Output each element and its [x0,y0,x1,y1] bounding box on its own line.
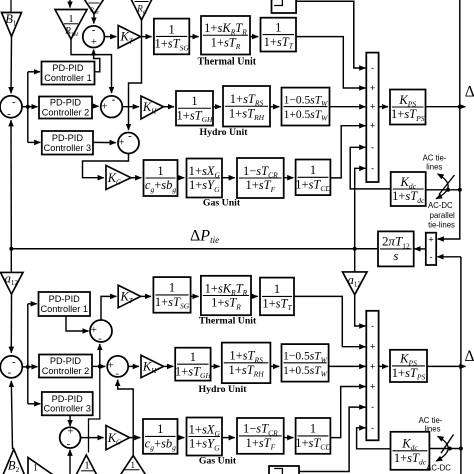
svg-text:cg+sbg: cg+sbg [145,178,177,194]
block DC tie K_dc/(1+sT_dc) area 1 [391,172,426,206]
wire S5 output to controller riser area 2 [22,366,28,368]
wire into PD-PID Controller 1 [28,71,40,73]
svg-text:Controller 1: Controller 1 [41,304,89,314]
svg-text:PD-PID: PD-PID [52,63,84,73]
block DC tie K_dc/(1+sT_dc) area 2 [391,432,430,470]
gain 1/R_G droop area 1 (cut at top) [130,0,154,20]
gain a12 right [343,272,368,295]
block power system K_PS/(1+sT_PS) area 1 [390,90,426,125]
wire reheat to turbine block area 1 [250,36,258,38]
svg-text:1: 1 [33,464,38,474]
gain B1 (frequency bias area 1) [2,12,22,37]
summing junction S6 thermal area 2 [90,320,112,345]
svg-text:1: 1 [310,422,316,436]
block PD-PID Controller 2 area 2 [39,355,92,378]
svg-text:Controller 1: Controller 1 [44,73,92,83]
wire summing block to power system block area 1 [379,106,388,108]
wire to gas combustor block [222,177,235,179]
svg-text:-: - [371,142,374,152]
svg-text:-: - [371,402,374,412]
svg-text:Gas Unit: Gas Unit [203,198,241,209]
svg-text:AC tie-: AC tie- [423,154,447,163]
wire S4 down-left to gain K_G [83,154,129,178]
wire delta f1 output [426,106,466,108]
wire hydro output to summing block input 3 [330,106,366,108]
wire droop riser area 2 [89,366,100,452]
block PD-PID Controller 1 area 1 [42,62,95,85]
summing block area 1 [366,53,378,182]
wire S1 output to controller riser [22,106,28,108]
gain K_T area 2 [118,285,140,308]
node switch area 2 b [459,447,463,451]
wire K_G to gas valve area 2 [130,437,141,439]
svg-text:PD-PID: PD-PID [50,356,82,366]
block PD-PID Controller 3 area 1 [42,131,93,155]
svg-text:Controller 2: Controller 2 [42,366,90,376]
block reheat (1+sK_RT_R)/(1+sT_R) area 1 [201,16,250,55]
svg-text:1: 1 [274,282,280,296]
block hydro governor area 2 [175,348,212,381]
svg-text:+: + [118,137,124,149]
block speed governor 1/(1+sT_SG) area 1 [154,19,189,55]
wire K_dc area 2 to summing block input 6 [357,428,391,449]
svg-text:-: - [430,252,433,262]
wire K_dc to feedback node area 1 [426,189,460,191]
block gas governor (1+sX_G)/(1+sY_G) [187,159,223,198]
svg-text:+: + [370,121,375,131]
svg-text:1: 1 [168,22,174,36]
node switch area 1 b [458,188,462,192]
svg-text:cg+sbg: cg+sbg [145,437,177,453]
block turbine 1/(1+sT_T) area 1 [261,18,297,52]
wire delta P tie line [11,248,378,250]
block turbine area 2 [260,278,294,316]
svg-text:-: - [8,367,12,379]
svg-text:-: - [12,96,16,108]
wire to hydro penstock block [270,106,279,108]
gain 1/R_TH droop area 2 (cut at bottom) [72,455,102,474]
svg-text:1+sKRTR: 1+sKRTR [205,281,248,297]
block power system K_PS/(1+sT_PS) area 2 [390,350,427,382]
wire S6 output to gain K_T area 2 [101,296,116,320]
svg-text:-: - [371,63,374,73]
block tie-line 2piT12/s [378,231,414,266]
gain K_H area 2 [141,355,164,378]
gain 1/R_TH droop area 1 [55,10,87,40]
wire B2 up into summing S5 [11,381,12,449]
svg-text:Δf2: Δf2 [465,348,474,366]
svg-text:-: - [371,163,374,173]
svg-text:-: - [67,438,71,450]
summing block area 2 [366,311,378,441]
block penstock (1-0.5sT_W)/(1+0.5sT_W) [282,88,330,126]
wire delta f2 feedback into tie summing (-) [437,256,461,258]
node switch area 2 a [448,447,452,451]
summing junction S1 (ACE area 1) [0,96,22,120]
wire into B1 from top [10,0,12,13]
wire to hydro droop compensation [213,106,221,108]
svg-text:+: + [370,102,375,112]
wire gas output to summing block input 4 [330,126,365,178]
svg-text:-: - [92,24,96,36]
svg-text:PD-PID: PD-PID [50,98,82,108]
svg-text:-: - [371,321,374,331]
wire into PD-PID Controller 2 area 2 [28,366,38,368]
wire to gas compressor block [284,177,294,179]
svg-text:1: 1 [191,94,197,108]
wire controller 1 output into thermal summing S6 [66,316,89,331]
wire controller 3 output down into gas summing S8 [69,415,71,426]
block speed governor area 2 [153,277,190,313]
wire controller 2 output into hydro summing S3 [92,105,99,107]
svg-text:s: s [393,248,398,263]
svg-text:1: 1 [84,460,89,471]
summing junction S7 hydro area 2 [107,356,128,380]
wire into PD-PID Controller 2 [28,106,38,108]
svg-text:Hydro Unit: Hydro Unit [200,127,249,138]
wire K_H to hydro governor area 2 [164,365,174,367]
svg-text:-: - [98,333,102,345]
wire frequency feedback up into S8 bottom [69,450,71,474]
svg-text:PD-PID: PD-PID [52,133,84,143]
svg-text:1: 1 [68,14,73,25]
svg-text:+: + [370,382,375,392]
wire frequency feedback into 1/R_TH [69,0,71,8]
wire a12 right to summing block area 2 input 1 [355,295,366,326]
node controller 2 branch area 2 [98,364,102,368]
block gas governor area 2 [187,418,223,456]
svg-text:Thermal Unit: Thermal Unit [197,56,256,67]
wire controller 3 output into gas summing S4 [93,141,116,143]
block compressor area 2 [295,418,331,454]
wire summing block to power system area 2 [379,365,388,367]
svg-text:1: 1 [275,20,281,34]
wire turbine output to summing block area 2 input 2 [294,296,365,346]
svg-text:PD-PID: PD-PID [49,294,81,304]
svg-text:+: + [108,360,114,372]
node delta f1 feedback [458,105,462,109]
node tie-line a12 branch [353,247,357,251]
switch blade area 2 [441,435,454,454]
wire 1/R_TH to droop bus and hydro summing S3 [71,39,112,93]
wire K_dc to feedback node area 2 [429,448,461,450]
svg-text:1: 1 [157,164,163,178]
wire limiter to summing block area 2 input 5 [299,407,365,471]
wire K_T to governor area 2 [141,295,151,297]
svg-text:-: - [115,368,119,380]
wire into PD-PID Controller 1 area 2 [28,303,37,305]
svg-text:Gas Unit: Gas Unit [199,456,237,467]
wire 1/R riser into S7 [118,380,134,456]
gain 1/R droop area 2 left (cut at bottom) [28,458,72,474]
svg-text:-: - [7,108,11,120]
svg-text:lines: lines [426,162,442,171]
svg-text:1: 1 [157,422,163,436]
block gas valve area 2 [143,419,178,454]
block combustor area 2 [237,418,284,454]
node controller riser area 2 [26,365,30,369]
switch arc to AC-DC parallel area 2 [436,436,448,461]
block PD-PID Controller 3 area 2 [42,392,93,415]
block reheat area 2 [201,276,251,315]
svg-text:Controller 2: Controller 2 [42,108,90,118]
wire controller 1 output into thermal summing S2 [94,50,100,72]
node switch area 1 a [446,188,450,192]
wire tie-line to summing block input 6 [355,168,366,249]
svg-text:+: + [370,361,375,371]
wire S7 to gain K_H area 2 [128,365,139,367]
block penstock area 2 [282,344,329,382]
wire limiter to summing block input 1 [296,1,365,68]
svg-text:+: + [91,324,97,336]
wire hydro output to summing block area 2 input 3 [329,365,366,367]
block rate limiter area 1 (cut at top) [272,0,297,13]
summing junction S3 hydro area 1 [101,93,123,117]
gain 1/R_G droop area 2 (cut at bottom) [117,456,149,474]
wire K_G to gas valve block [131,177,141,179]
gain K_T area 1 [118,26,140,49]
wire into PD-PID Controller 3 [28,141,41,143]
svg-text:-: - [112,93,116,105]
wire delta f2 output [427,365,466,367]
summing junction S5 (ACE area 2) [0,356,22,379]
wire to gas governor area 2 [178,437,185,439]
wire K_dc output to summing block input 5 [350,147,391,189]
svg-text:-: - [12,356,16,368]
wire into PD-PID Controller 3 area 2 [28,403,41,405]
block PD-PID Controller 1 area 2 [39,292,91,316]
wire SG to reheat block area 1 [189,36,198,38]
wire tie summing to 2piT12 block [415,248,426,250]
wire to compressor area 2 [284,437,294,439]
wire 1/R_HY into thermal summing S2 [93,14,95,24]
svg-text:+: + [91,36,97,48]
block hydro compensation (1+sT_RS)/(1+sT_RH) [223,86,270,127]
block hydro compensation area 2 [222,343,271,384]
wire S3 to gain K_H [122,106,139,108]
svg-text:Hydro Unit: Hydro Unit [199,384,248,395]
wire 1/R_G to gas summing S4 [129,20,142,130]
node tie-line left [9,247,13,251]
wire reheat to turbine area 2 [251,295,258,297]
block PD-PID Controller 2 area 1 [39,97,92,119]
wire S2 to gain K_T [104,36,116,38]
svg-text:lines: lines [424,425,440,434]
summing box tie-line [426,233,436,265]
svg-text:+: + [67,426,73,438]
svg-text:Thermal Unit: Thermal Unit [199,316,257,327]
wire delta f1 feedback to tie summing (+) [438,0,460,239]
svg-text:+: + [370,83,375,93]
svg-text:AC-DC: AC-DC [428,201,453,210]
svg-text:+: + [428,234,433,244]
switch blade area 1 [439,175,455,195]
wire tie-line down into a12 area 2 left [10,249,12,272]
block gas valve 1/(c_g+sb_g) [144,160,178,196]
wire a12 to summing S5 [10,294,12,353]
svg-text:Controller 3: Controller 3 [44,404,92,414]
svg-text:1+sKRTR: 1+sKRTR [204,21,247,37]
svg-text:PD-PID: PD-PID [52,394,84,404]
svg-text:Controller 3: Controller 3 [44,143,92,153]
wire tie junction down to a12 right [354,249,356,272]
svg-text:-: - [128,130,132,142]
summing junction S4 gas area 1 [118,130,139,154]
wire to gas governor block [178,177,185,179]
svg-text:AC-DC: AC-DC [426,464,451,473]
gain K_G area 2 [106,426,130,450]
wire gas output to summing block area 2 input 4 [330,387,365,438]
gain B2 (frequency bias area 2) [3,449,26,474]
wire K_H to hydro governor [164,106,175,108]
wire B1 to summing S1 [10,37,13,94]
wire to combustor area 2 [222,437,235,439]
summing junction S2 thermal area 1 [83,24,105,48]
wire controller riser area 1 [27,72,29,143]
wire turbine output to summing block input 2 [296,37,365,88]
wire to penstock area 2 [270,365,279,367]
svg-text:1: 1 [310,163,316,177]
wire droop feedback up into S6 [99,344,101,366]
gain 1/R_HY droop area 1 (cut at top) [84,0,105,15]
switch arc to AC tie-lines [436,174,448,199]
svg-text:1: 1 [131,460,136,470]
wire to hydro compensation area 2 [211,365,220,367]
node controller riser area 1 [26,105,30,109]
svg-text:-: - [371,423,374,433]
wire K_T to speed governor block [141,36,152,38]
svg-text:+: + [101,100,107,112]
block combustor (1-sT_CR)/(1+sT_F) [237,158,284,198]
gain K_G area 1 [106,166,131,190]
gain a12 left [1,272,24,295]
wire controller 2 output to hydro summing S7 [92,365,105,367]
block hydro governor 1/(1+sT_GH) [176,91,213,126]
gain K_H area 1 [141,96,164,119]
block compressor discharge 1/(1+sT_CD) [295,160,331,196]
svg-text:Δf1: Δf1 [465,84,474,102]
svg-text:+: + [370,342,375,352]
wire S8 to gain K_G area 2 [80,437,104,439]
svg-text:1: 1 [190,350,196,364]
summing junction S8 gas area 2 [60,426,81,450]
svg-text:AC tie-: AC tie- [419,416,443,425]
wire SG to reheat area 2 [191,295,199,297]
block rate limiter area 2 (cut at bottom) [269,466,299,474]
wire tie-line junction up to summing S1 [10,120,12,249]
wire controller riser area 2 [27,304,29,404]
svg-text:1: 1 [169,281,175,295]
svg-text:parallel: parallel [430,211,455,220]
svg-text:tie-lines: tie-lines [428,220,455,229]
node delta f2 feedback [459,364,463,368]
wire delta f2 feedback vertical [460,257,462,474]
